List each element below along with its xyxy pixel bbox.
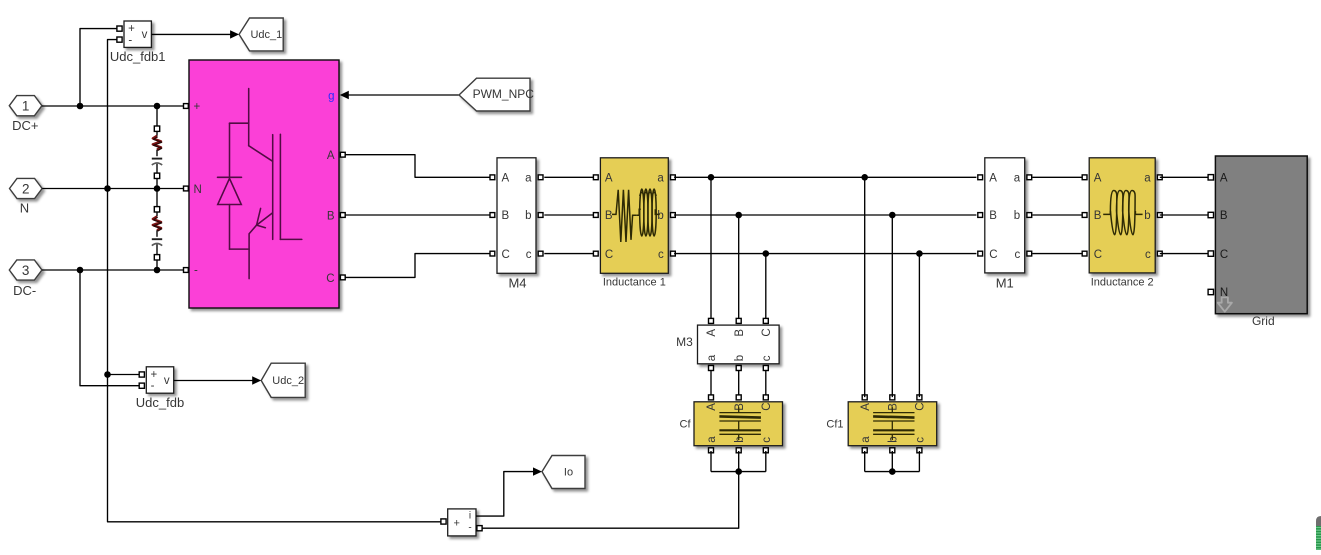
svg-text:b: b xyxy=(657,210,663,222)
NPC - port square xyxy=(184,268,189,273)
svg-text:a: a xyxy=(706,354,718,361)
wire N rail xyxy=(42,188,183,190)
svg-text:b: b xyxy=(1014,210,1020,222)
wire current i output xyxy=(476,472,533,516)
svg-text:a: a xyxy=(860,436,872,443)
wire Udc_fdb1 + input xyxy=(80,29,117,106)
junction DC+ / RC1 xyxy=(154,103,161,110)
svg-text:b: b xyxy=(734,355,746,361)
svg-text:+: + xyxy=(128,23,135,35)
svg-text:B: B xyxy=(989,210,997,222)
svg-text:Udc_fdb1: Udc_fdb1 xyxy=(110,49,166,64)
svg-text:2: 2 xyxy=(22,181,30,196)
svg-text:b: b xyxy=(1144,210,1150,222)
junction B/M3 xyxy=(735,212,742,219)
svg-text:c: c xyxy=(1145,249,1151,261)
wire Cf neutral to current meas - xyxy=(482,472,739,529)
svg-text:N: N xyxy=(194,184,202,196)
svg-text:a: a xyxy=(706,436,718,443)
wire rail B xyxy=(674,214,976,216)
measurement block M1 xyxy=(978,158,1032,291)
goto tag Udc_2 xyxy=(261,363,305,397)
svg-text:b: b xyxy=(888,436,900,442)
capacitor bank Cf1 xyxy=(826,395,936,453)
wire M1 c - Ind2 C xyxy=(1032,253,1084,255)
arrowhead to Udc_2 xyxy=(252,376,261,384)
NPC C port square xyxy=(340,275,345,280)
svg-text:M3: M3 xyxy=(676,335,693,349)
junction DC- / RC2 xyxy=(154,267,161,274)
wire C down to Cf1 xyxy=(918,254,920,398)
wire Udc_fdb1 - input (from N sense line) xyxy=(108,40,442,522)
inport 3 (DC-) xyxy=(9,260,42,298)
svg-text:B: B xyxy=(1094,210,1102,222)
svg-text:Udc_fdb: Udc_fdb xyxy=(136,395,184,410)
svg-text:Cf1: Cf1 xyxy=(826,419,843,431)
wire NPC B to M4 B xyxy=(346,214,490,216)
svg-text:3: 3 xyxy=(22,263,30,278)
wire Udc_fdb - input xyxy=(80,270,139,386)
measurement block M4 xyxy=(490,158,543,291)
svg-text:B: B xyxy=(1220,210,1228,222)
svg-text:Udc_1: Udc_1 xyxy=(250,29,282,41)
wire B down to Cf1 xyxy=(891,215,893,397)
svg-text:A: A xyxy=(1094,173,1102,185)
inport 1 (DC+) xyxy=(9,96,42,133)
svg-text:A: A xyxy=(989,173,997,185)
current measurement block xyxy=(441,509,482,536)
junction A/Cf1 xyxy=(861,174,868,181)
svg-text:g: g xyxy=(328,91,334,103)
svg-text:i: i xyxy=(469,510,471,521)
svg-text:B: B xyxy=(502,210,510,222)
capacitor bank Cf xyxy=(680,395,783,453)
wire PWM_NPC to g xyxy=(348,94,459,96)
voltage measurement Udc_fdb1 xyxy=(110,21,166,64)
wire M1 b - Ind2 B xyxy=(1032,214,1084,216)
arrowhead to Udc_1 xyxy=(230,30,239,38)
svg-text:-: - xyxy=(194,265,198,277)
svg-text:b: b xyxy=(734,436,746,442)
svg-text:C: C xyxy=(1220,249,1228,261)
wire M4 c - Ind1 C xyxy=(544,253,594,255)
svg-text:B: B xyxy=(605,210,613,222)
wire Cf1 a down xyxy=(864,451,866,472)
svg-text:+: + xyxy=(453,518,459,530)
svg-text:a: a xyxy=(657,173,664,185)
junction Cf1 neutral xyxy=(889,468,896,475)
svg-text:M1: M1 xyxy=(996,276,1014,291)
svg-text:+: + xyxy=(150,369,157,381)
junction N / RC1-RC2 xyxy=(154,185,161,192)
arrowhead into g port xyxy=(340,91,349,99)
svg-text:C: C xyxy=(761,328,773,336)
wire Cf neutral bus xyxy=(711,471,766,473)
svg-text:c: c xyxy=(658,249,664,261)
svg-text:-: - xyxy=(468,523,471,534)
wire Ind2 b - Grid B xyxy=(1160,214,1209,216)
wire Cf1 b down xyxy=(891,451,893,472)
series RC branch 1 (R+C between DC+ and N) xyxy=(152,106,162,189)
wire Cf1 neutral bus xyxy=(865,471,920,473)
svg-text:B: B xyxy=(734,329,746,337)
wire NPC C to M4 C xyxy=(346,254,490,278)
junction B/Cf1 xyxy=(889,212,896,219)
svg-text:DC-: DC- xyxy=(13,283,36,298)
svg-text:a: a xyxy=(525,173,532,185)
wire Cf a down xyxy=(710,451,712,472)
measurement block M3 xyxy=(676,318,779,370)
svg-text:A: A xyxy=(605,173,613,185)
svg-text:+: + xyxy=(194,101,201,113)
svg-text:A: A xyxy=(860,403,872,411)
wire rail A xyxy=(674,176,976,178)
wire M1 a - Ind2 A xyxy=(1032,176,1084,178)
svg-text:Udc_2: Udc_2 xyxy=(272,375,304,387)
wire Cf b down xyxy=(738,451,740,472)
svg-text:PWM_NPC: PWM_NPC xyxy=(473,87,535,101)
svg-text:C: C xyxy=(502,249,510,261)
NPC B port square xyxy=(340,213,345,218)
junction C/Cf1 xyxy=(916,250,923,257)
svg-text:A: A xyxy=(1220,173,1228,185)
wire DC- rail xyxy=(42,269,183,271)
svg-text:a: a xyxy=(1144,173,1151,185)
goto tag Udc_1 xyxy=(239,18,283,51)
svg-text:b: b xyxy=(525,210,531,222)
svg-text:B: B xyxy=(734,403,746,411)
svg-text:-: - xyxy=(128,34,132,46)
svg-text:B: B xyxy=(327,211,335,223)
svg-text:N: N xyxy=(20,201,29,216)
wire NPC A to M4 A xyxy=(346,155,490,178)
NPC N port square xyxy=(184,186,189,191)
svg-text:A: A xyxy=(502,173,510,185)
svg-text:-: - xyxy=(151,380,155,392)
wire Cf c down xyxy=(765,451,767,472)
svg-text:A: A xyxy=(327,150,335,162)
wire M4 b - Ind1 B xyxy=(544,214,594,216)
svg-text:Io: Io xyxy=(564,467,573,479)
wire Ind2 c - Grid C xyxy=(1160,253,1209,255)
svg-text:c: c xyxy=(761,437,773,443)
svg-text:c: c xyxy=(761,355,773,361)
svg-text:Inductance 2: Inductance 2 xyxy=(1091,277,1154,289)
svg-text:M4: M4 xyxy=(508,276,526,291)
svg-text:A: A xyxy=(706,403,718,411)
wire rail C xyxy=(674,253,976,255)
svg-text:C: C xyxy=(915,402,927,410)
svg-text:Cf: Cf xyxy=(680,419,692,431)
wire M3 c to Cf C xyxy=(765,371,767,398)
three-level NPC bridge block xyxy=(189,60,339,308)
wire Udc_fdb + input xyxy=(108,374,140,376)
svg-text:v: v xyxy=(164,375,170,387)
arrowhead to Io xyxy=(533,467,542,475)
junction Cf neutral xyxy=(735,468,742,475)
junction DC- / Udc_fdb- xyxy=(77,267,84,274)
wire Udc_fdb1 v output xyxy=(151,33,231,35)
from tag PWM_NPC xyxy=(459,78,534,111)
svg-text:c: c xyxy=(526,249,532,261)
svg-text:c: c xyxy=(915,437,927,443)
svg-text:a: a xyxy=(1014,173,1021,185)
wire B down to M3 xyxy=(738,215,740,319)
wire M3 a to Cf A xyxy=(710,371,712,398)
wire M4 a - Ind1 A xyxy=(544,176,594,178)
NPC A port square xyxy=(340,152,345,157)
inport 2 (N) xyxy=(10,178,43,215)
inductance block Inductance 1 xyxy=(593,158,675,289)
svg-text:C: C xyxy=(989,249,997,261)
svg-text:C: C xyxy=(761,402,773,410)
svg-text:A: A xyxy=(706,329,718,337)
goto tag Io xyxy=(542,456,585,489)
scrollbar fragment xyxy=(1316,516,1321,550)
voltage measurement Udc_fdb xyxy=(136,367,184,410)
svg-text:DC+: DC+ xyxy=(12,118,38,133)
junction DC+ / Udc_fdb1+ xyxy=(77,103,84,110)
junction N / sense xyxy=(104,185,111,192)
svg-text:1: 1 xyxy=(22,99,30,114)
svg-text:c: c xyxy=(1014,249,1020,261)
wire Ind2 a - Grid A xyxy=(1160,176,1209,178)
svg-text:v: v xyxy=(142,29,148,41)
svg-text:C: C xyxy=(1094,249,1102,261)
wire Udc_fdb v output xyxy=(174,380,253,382)
wire Cf1 c down xyxy=(918,451,920,472)
junction C/M3 xyxy=(763,250,770,257)
NPC + port square xyxy=(184,104,189,109)
junction A/M3 xyxy=(708,174,715,181)
svg-text:B: B xyxy=(888,403,900,411)
Inductance 1 coil icon xyxy=(612,189,660,242)
svg-text:C: C xyxy=(605,249,613,261)
series RC branch 2 (R+C between N and DC-) xyxy=(152,189,162,271)
grid block Grid xyxy=(1208,156,1307,328)
Inductance 2 coil icon xyxy=(1103,191,1142,235)
inductance block Inductance 2 xyxy=(1082,158,1162,289)
wire A down to Cf1 xyxy=(864,177,866,397)
wire A down to M3 xyxy=(710,177,712,318)
svg-text:Grid: Grid xyxy=(1252,314,1275,328)
wire DC+ rail xyxy=(42,105,183,107)
svg-text:C: C xyxy=(326,273,334,285)
wire M3 b to Cf B xyxy=(738,371,740,398)
junction sense / Udc_fdb+ xyxy=(104,371,111,378)
NPC bridge icon (IGBT/diode) xyxy=(218,89,302,279)
svg-text:Inductance 1: Inductance 1 xyxy=(603,277,666,289)
wire C down to M3 xyxy=(765,254,767,319)
